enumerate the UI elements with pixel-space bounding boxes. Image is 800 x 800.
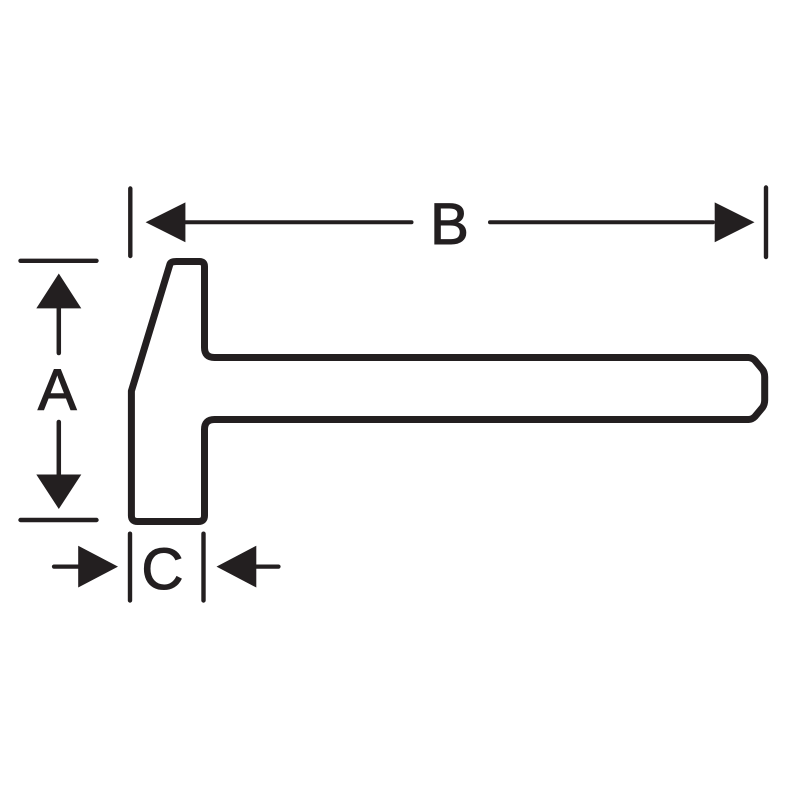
svg-text:B: B bbox=[430, 192, 469, 257]
dimension A: lower line segment bbox=[57, 422, 62, 476]
dimension A: down arrowhead bbox=[36, 475, 81, 510]
dimension B: left line segment bbox=[184, 220, 412, 224]
dimension B: left extension tick bbox=[128, 189, 132, 257]
dimension C: left leader line bbox=[54, 564, 79, 568]
dimension A: up arrowhead bbox=[36, 274, 81, 309]
hammer outline bbox=[131, 262, 764, 522]
dimension A: top extension tick bbox=[21, 259, 97, 263]
dimension C: left arrowhead (pointing right) bbox=[78, 546, 118, 588]
dimension C: right leader line bbox=[255, 564, 279, 568]
dimension A: upper line segment bbox=[57, 307, 62, 353]
dimension A: bottom extension tick bbox=[21, 518, 97, 522]
dimension C: right arrowhead (pointing left) bbox=[217, 546, 257, 588]
dimension B: left arrowhead bbox=[146, 202, 186, 242]
dimension C: right extension tick bbox=[201, 534, 205, 601]
dimension B: right arrowhead bbox=[715, 202, 755, 242]
dimension C: left extension tick bbox=[128, 534, 132, 601]
svg-text:A: A bbox=[38, 358, 77, 423]
svg-text:C: C bbox=[142, 537, 184, 602]
dimension B: right line segment bbox=[490, 220, 713, 224]
dimension B: right extension tick bbox=[764, 188, 768, 258]
